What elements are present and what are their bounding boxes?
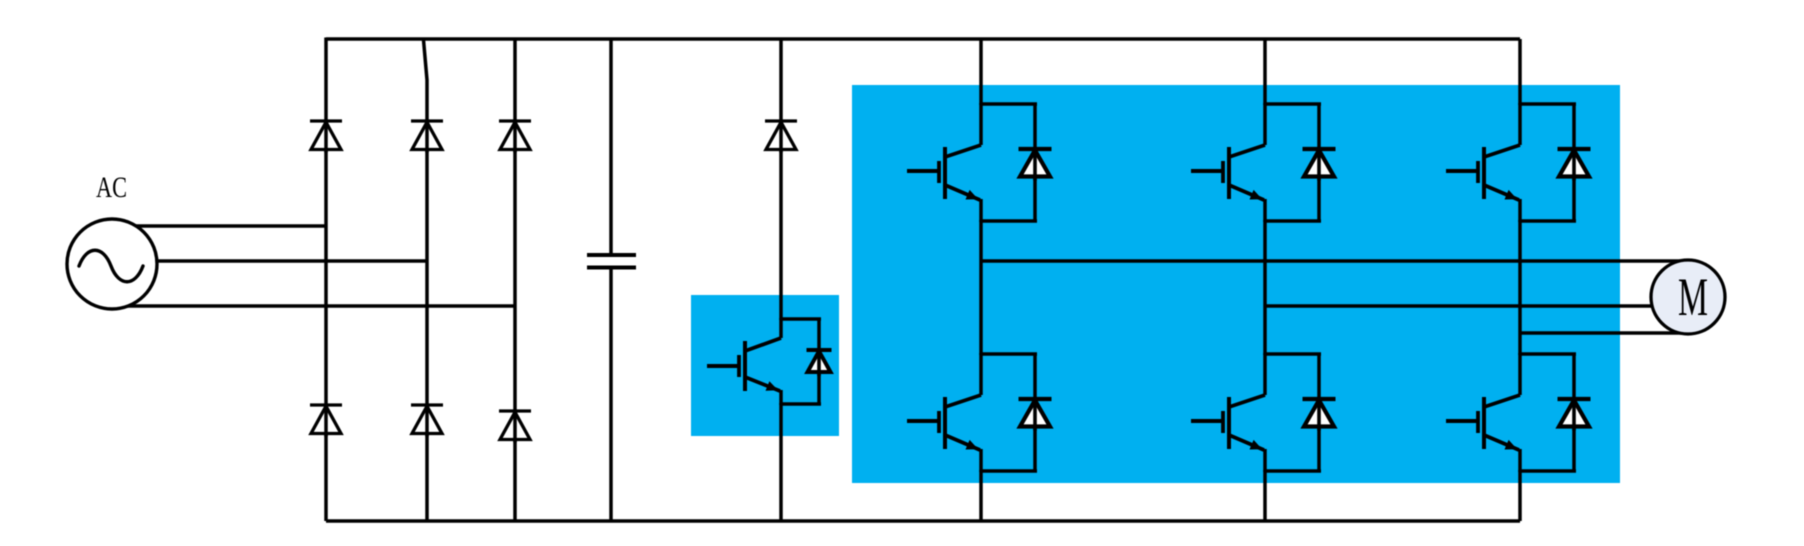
wire: inverter leg V middle <box>1263 220 1267 355</box>
wire: inverter leg W middle <box>1518 220 1522 355</box>
IGBT Q2 with freewheel diode (leg U low side) <box>907 353 1052 472</box>
motor M <box>1651 260 1725 334</box>
brake chopper IGBT Q7 <box>707 318 832 405</box>
wire: DC bus positive rail <box>326 37 1520 41</box>
wire: motor phase W <box>1520 331 1694 335</box>
svg-text:M: M <box>1678 267 1708 327</box>
capacitor C1 <box>587 39 636 521</box>
IGBT Q4 with freewheel diode (leg V low side) <box>1191 353 1336 472</box>
wire: rectifier leg 1 <box>324 38 328 522</box>
AC source symbol <box>67 219 157 309</box>
wire: inverter leg U lower <box>979 470 983 521</box>
highlight box (inverter unit) <box>852 85 1620 483</box>
wire: brake chopper branch upper <box>779 39 783 320</box>
wire: rectifier leg 2 top jog <box>424 40 428 521</box>
wire: inverter leg V upper <box>1263 39 1267 105</box>
wire: AC phase input b <box>112 259 429 263</box>
wire: brake chopper branch lower <box>779 403 783 521</box>
rectifier diode D2 (leg2 upper) <box>411 121 443 153</box>
rectifier diode D3 (leg3 upper) <box>499 121 531 153</box>
wire: AC phase input c <box>112 304 517 308</box>
rectifier diode D6 (leg3 lower) <box>499 411 531 443</box>
wire: inverter leg U upper <box>979 39 983 105</box>
wire: inverter leg W upper <box>1518 39 1522 105</box>
wire: motor phase V <box>1265 304 1690 308</box>
rectifier diode D5 (leg2 lower) <box>411 405 443 437</box>
brake diode D7 <box>765 121 797 153</box>
rectifier diode D1 (leg1 upper) <box>310 121 342 153</box>
wire: inverter leg W lower <box>1518 470 1522 521</box>
IGBT Q5 with freewheel diode (leg W high side) <box>1446 103 1591 222</box>
wire: motor phase U <box>981 259 1694 263</box>
IGBT Q3 with freewheel diode (leg V high side) <box>1191 103 1336 222</box>
svg-text:AC: AC <box>96 171 127 204</box>
wire: AC phase input a <box>112 224 328 228</box>
IGBT Q1 with freewheel diode (leg U high side) <box>907 103 1052 222</box>
rectifier diode D4 (leg1 lower) <box>310 405 342 437</box>
wire: inverter leg V lower <box>1263 470 1267 521</box>
highlight box (brake chopper unit) <box>691 295 839 436</box>
wire: rectifier leg 3 <box>513 39 517 521</box>
IGBT Q6 with freewheel diode (leg W low side) <box>1446 353 1591 472</box>
wire: inverter leg U middle <box>979 220 983 355</box>
wire: DC bus negative rail <box>326 519 1520 523</box>
